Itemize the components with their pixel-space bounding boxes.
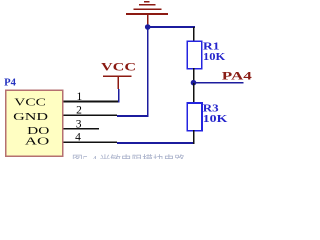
pin P4.3 bbox=[63, 128, 99, 130]
power VCC symbol bbox=[103, 75, 132, 89]
svg-text:2: 2 bbox=[76, 104, 82, 116]
wire GND horizontal to R1 bbox=[147, 26, 195, 28]
node PA4 junction bbox=[191, 80, 197, 86]
wire pin 4 blue segment to R3 bbox=[117, 142, 195, 144]
resistor R1 bbox=[187, 41, 202, 69]
svg-text:AO: AO bbox=[25, 136, 50, 148]
svg-text:GND: GND bbox=[13, 111, 48, 123]
pin P4.4 bbox=[63, 141, 117, 143]
pin R3 bottom bbox=[193, 130, 195, 144]
wire GND vertical down to pin 2 bbox=[147, 27, 149, 117]
connector P4 body bbox=[6, 90, 63, 156]
svg-text:图5-4 光敏电阻模块电路: 图5-4 光敏电阻模块电路 bbox=[72, 153, 186, 159]
svg-text:VCC: VCC bbox=[14, 96, 46, 108]
pin R1 top bbox=[193, 27, 195, 42]
svg-text:1: 1 bbox=[77, 91, 83, 103]
wire VCC stem blue to pin 1 bbox=[118, 89, 120, 103]
svg-text:10K: 10K bbox=[203, 114, 228, 125]
resistor R3 bbox=[187, 103, 202, 131]
ground bbox=[126, 1, 168, 25]
svg-text:10K: 10K bbox=[203, 52, 225, 63]
svg-text:4: 4 bbox=[75, 132, 81, 144]
pin P4.2 bbox=[63, 114, 117, 116]
svg-text:PA4: PA4 bbox=[222, 68, 252, 82]
pin R3 top bbox=[193, 83, 195, 104]
wire net PA4 bbox=[194, 82, 244, 84]
pin R1 bottom bbox=[193, 68, 195, 83]
wire pin 2 blue segment bbox=[117, 115, 149, 117]
svg-text:VCC: VCC bbox=[101, 62, 136, 74]
svg-text:P4: P4 bbox=[4, 78, 17, 89]
node GND junction bbox=[145, 24, 151, 30]
pin P4.1 bbox=[63, 101, 118, 103]
svg-text:3: 3 bbox=[76, 118, 82, 130]
svg-text:R3: R3 bbox=[203, 104, 219, 115]
